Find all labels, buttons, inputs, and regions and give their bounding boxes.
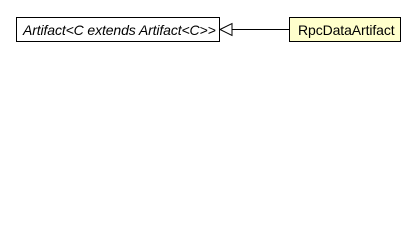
- inheritance arrow (hollow triangle + wire): [0, 0, 416, 59]
- wire: [232, 29, 290, 31]
- label RpcDataArtifact: [298, 25, 395, 35]
- class box Artifact (abstract superclass): [16, 17, 220, 42]
- label Artifact<C extends Artifact<C>>: [23, 25, 216, 35]
- hollow triangle arrowhead: [220, 24, 232, 36]
- class box RpcDataArtifact (focal class, yellow): [289, 17, 401, 42]
